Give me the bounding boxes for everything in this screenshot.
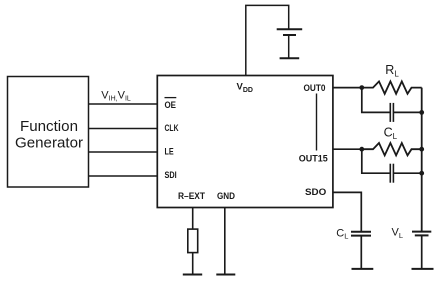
svg-text:SDI: SDI — [165, 170, 177, 181]
svg-text:SDO: SDO — [305, 187, 326, 198]
capacitor CL3 — [351, 232, 371, 236]
svg-text:Function: Function — [20, 118, 78, 135]
svg-text:R–EXT: R–EXT — [178, 191, 205, 202]
capacitor CL1 — [390, 103, 393, 122]
wire: CL2 to rail — [394, 172, 422, 174]
label VIH,VIL — [101, 90, 131, 103]
svg-text:GND: GND — [217, 191, 235, 202]
wire: function generator to LE — [89, 151, 158, 153]
wire: CL1 branch left — [362, 88, 390, 113]
battery VDD supply — [277, 29, 303, 58]
wire: VDD pin to supply battery — [246, 5, 289, 75]
resistor RL1 — [362, 81, 422, 93]
node: OUT15 junction — [359, 147, 364, 152]
svg-text:OUT15: OUT15 — [299, 154, 329, 165]
svg-text:OUT0: OUT0 — [304, 83, 326, 94]
wire: OUT0 stub — [333, 87, 362, 89]
wire: VL stem — [421, 235, 423, 269]
wire: CL3 stem — [360, 236, 362, 269]
wire: CL2 branch left — [362, 149, 390, 173]
resistor RL2 — [362, 143, 422, 155]
wire: function generator to CLK — [89, 128, 158, 130]
node: RL2 rail junction — [419, 147, 424, 152]
ground bar CL3 — [352, 268, 374, 270]
node: OUT0 junction — [359, 85, 364, 90]
internal line OUT0 to OUT15 — [316, 94, 318, 151]
ground bar GND — [216, 274, 235, 276]
wire: CL1 to rail — [394, 111, 422, 113]
wire: R-EXT pin down — [192, 208, 194, 230]
wire: function generator to SDI — [89, 175, 158, 177]
pin label OE with overline — [165, 98, 177, 111]
wire: GND pin down — [224, 208, 226, 275]
svg-text:Generator: Generator — [15, 134, 83, 151]
svg-text:OE: OE — [165, 100, 177, 111]
IC U1 box — [157, 76, 333, 208]
ground bar R-EXT — [183, 274, 202, 276]
wire: SDO to CL3 — [333, 192, 361, 231]
function generator label — [15, 118, 83, 151]
wire: R-EXT resistor to ground — [192, 253, 194, 275]
ground bar VL — [412, 268, 434, 270]
wire: right rail — [421, 88, 423, 232]
node: CL2 rail junction — [419, 171, 424, 176]
svg-text:LE: LE — [165, 147, 174, 158]
capacitor CL2 — [390, 164, 393, 183]
node: CL1 rail junction — [419, 110, 424, 115]
wire: OUT15 stub — [333, 148, 362, 150]
wire: function generator to OE — [89, 103, 158, 105]
resistor R-EXT — [188, 229, 198, 253]
svg-text:CLK: CLK — [165, 123, 179, 134]
battery VL — [412, 232, 431, 236]
function generator box — [8, 77, 89, 188]
